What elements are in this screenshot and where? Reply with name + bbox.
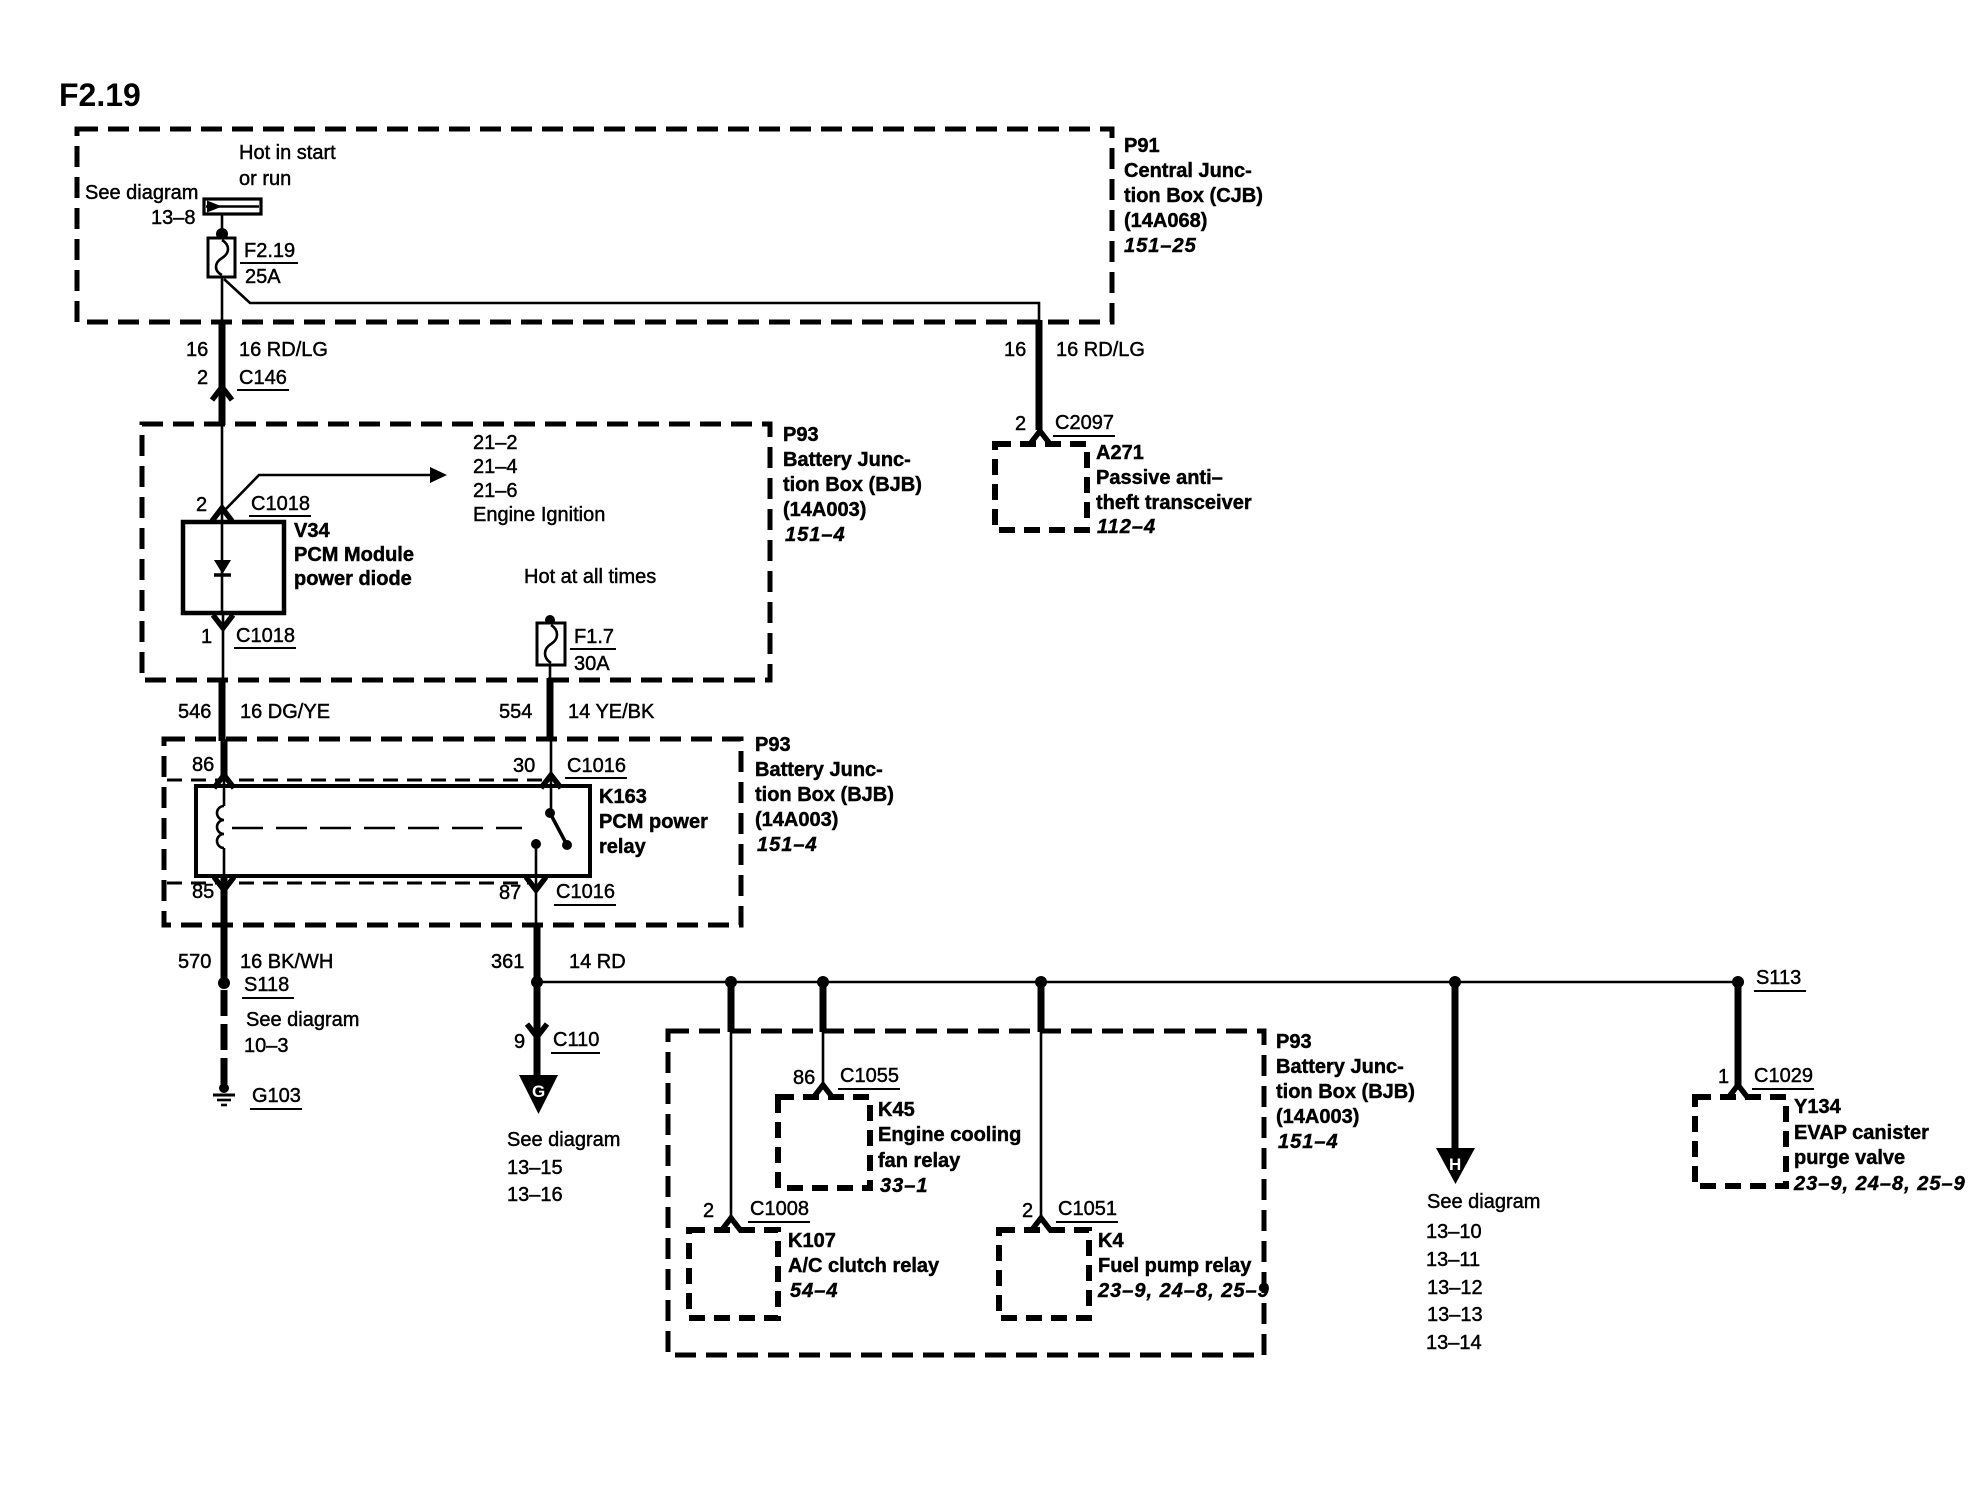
wire 16 RD/LG left (thick) <box>219 320 226 425</box>
connector C146 arrow <box>212 387 232 400</box>
svg-text:theft transceiver: theft transceiver <box>1096 492 1252 514</box>
connector C1029 arrow <box>1728 1085 1748 1098</box>
svg-text:relay: relay <box>599 836 647 858</box>
svg-text:33–1: 33–1 <box>880 1175 929 1197</box>
P93 lower label <box>1276 1031 1415 1153</box>
svg-text:16: 16 <box>1004 339 1026 361</box>
connector C1018 pin 2 label <box>196 493 311 516</box>
diode V34 box <box>183 522 284 613</box>
relay pin 85 arrow (down) <box>214 877 234 890</box>
wire into relay pin 30 (thin) <box>550 739 553 812</box>
fuse F2.19 <box>208 238 235 277</box>
svg-text:(14A003): (14A003) <box>1276 1106 1359 1128</box>
svg-text:C1018: C1018 <box>236 625 295 647</box>
svg-text:C1008: C1008 <box>750 1198 809 1220</box>
svg-text:13–11: 13–11 <box>1426 1249 1480 1271</box>
svg-text:Engine Ignition: Engine Ignition <box>473 504 605 526</box>
note: See diagram 13-10 .. 13-14 <box>1426 1191 1540 1354</box>
P91 label <box>1124 135 1263 257</box>
wire to K45 (thin) <box>822 1032 825 1086</box>
svg-text:13–10: 13–10 <box>1426 1221 1482 1243</box>
ground G103 label <box>250 1085 302 1109</box>
svg-text:See diagram: See diagram <box>1427 1191 1540 1213</box>
off-page arrow G <box>519 1075 558 1114</box>
svg-text:P93: P93 <box>755 734 791 756</box>
svg-text:151–25: 151–25 <box>1124 235 1197 257</box>
svg-text:86: 86 <box>192 754 214 776</box>
connector C1051 pin 2 label <box>1022 1198 1118 1222</box>
wire inside BJB down to V34 (thin) <box>221 424 224 522</box>
relay pin 30 arrow <box>541 775 561 788</box>
svg-text:C1016: C1016 <box>567 755 626 777</box>
svg-text:Hot at all times: Hot at all times <box>524 566 656 588</box>
valve Y134 dashed box <box>1695 1097 1786 1186</box>
connector C2097 arrow <box>1030 431 1050 444</box>
junction box P93 upper (Battery Junction Box) dashed outline <box>142 424 770 680</box>
node dot K45 branch <box>817 976 829 988</box>
svg-text:F2.19: F2.19 <box>59 77 141 113</box>
connector C1008 pin 2 label <box>703 1198 810 1222</box>
svg-text:See diagram: See diagram <box>85 182 198 204</box>
svg-text:PCM Module: PCM Module <box>294 544 414 566</box>
wire K45 branch (thick) <box>820 982 827 1032</box>
svg-text:power diode: power diode <box>294 568 412 590</box>
wire 16 RD/LG right (thick) <box>1036 320 1043 430</box>
splice S113 node <box>1732 976 1744 988</box>
wire label 546 16 DG/YE <box>178 701 330 723</box>
svg-text:EVAP canister: EVAP canister <box>1794 1122 1929 1144</box>
connector C1029 pin 1 label <box>1718 1065 1814 1089</box>
note: See diagram 10-3 <box>244 1009 359 1057</box>
svg-text:C110: C110 <box>553 1029 599 1051</box>
svg-text:2: 2 <box>1022 1200 1033 1222</box>
svg-text:54–4: 54–4 <box>790 1280 839 1302</box>
wire S113 to Y134 (thick) <box>1735 982 1742 1086</box>
svg-text:Y134: Y134 <box>1794 1096 1842 1118</box>
P93 upper label <box>783 424 922 546</box>
wire K107 branch (thick) <box>728 982 735 1032</box>
V34 label <box>294 520 414 590</box>
svg-text:Passive anti–: Passive anti– <box>1096 467 1223 489</box>
svg-text:151–4: 151–4 <box>785 524 846 546</box>
svg-text:30A: 30A <box>574 653 610 675</box>
relay pin 87 label <box>499 881 616 905</box>
svg-text:C1016: C1016 <box>556 881 615 903</box>
svg-text:Engine cooling: Engine cooling <box>878 1124 1021 1146</box>
relay K163 label <box>599 786 708 858</box>
wire relay pin 87 (thin) <box>535 844 538 925</box>
svg-text:tion Box (BJB): tion Box (BJB) <box>783 474 922 496</box>
svg-text:13–15: 13–15 <box>507 1157 563 1179</box>
wire label 16 RD/LG right <box>1004 339 1145 361</box>
node dot at 361 wire <box>531 976 543 988</box>
connector C1055 arrow <box>813 1085 833 1098</box>
A271 label <box>1096 442 1252 538</box>
svg-text:tion Box (BJB): tion Box (BJB) <box>1276 1081 1415 1103</box>
wire to K4 (thin) <box>1040 1032 1043 1219</box>
svg-text:13–14: 13–14 <box>1426 1332 1482 1354</box>
connector C146 pin 2 label <box>197 367 289 390</box>
connector C2097 pin 2 label <box>1015 412 1115 436</box>
splice S113 label <box>1754 967 1806 991</box>
svg-text:112–4: 112–4 <box>1097 516 1156 538</box>
svg-text:Battery Junc-: Battery Junc- <box>1276 1056 1404 1078</box>
svg-text:30: 30 <box>513 755 535 777</box>
connector C1055 pin 86 label <box>793 1065 900 1089</box>
relay K163 internal dashed link <box>232 827 522 830</box>
wire label 570 16 BK/WH <box>178 951 333 973</box>
power feed bus bar symbol <box>204 199 261 214</box>
relay K107 dashed box <box>689 1230 778 1318</box>
connector C1051 arrow <box>1031 1218 1051 1231</box>
svg-text:23–9, 24–8, 25–9: 23–9, 24–8, 25–9 <box>1097 1280 1270 1302</box>
connector line C1016 bottom (dashed) <box>167 882 533 885</box>
wire label 361 14 RD <box>491 951 626 973</box>
svg-text:fan relay: fan relay <box>878 1150 961 1172</box>
node dot H branch <box>1449 976 1461 988</box>
svg-text:P93: P93 <box>783 424 819 446</box>
relay K45 dashed box <box>778 1097 870 1188</box>
note: Engine Ignition feed list <box>473 432 605 526</box>
svg-text:S113: S113 <box>1756 967 1801 989</box>
svg-text:K163: K163 <box>599 786 647 808</box>
K45 label <box>878 1099 1021 1197</box>
svg-text:16 BK/WH: 16 BK/WH <box>240 951 333 973</box>
svg-text:151–4: 151–4 <box>1278 1131 1339 1153</box>
svg-text:13–13: 13–13 <box>1427 1304 1483 1326</box>
wire bus bar to fuse <box>221 213 224 240</box>
svg-text:21–4: 21–4 <box>473 456 518 478</box>
svg-text:tion Box (CJB): tion Box (CJB) <box>1124 185 1263 207</box>
fuse F1.7 30A label <box>570 626 616 675</box>
Y134 label <box>1793 1096 1966 1195</box>
wire V34 to box bottom (thin) <box>222 613 225 680</box>
svg-text:25A: 25A <box>245 266 281 288</box>
wire 361 14 RD (thick) <box>534 925 541 983</box>
wire S118 to ground (thick dashed) <box>221 990 228 1084</box>
svg-text:tion Box (BJB): tion Box (BJB) <box>755 784 894 806</box>
relay pin 86 arrow <box>214 775 234 788</box>
wire gauge label 16 RD/LG <box>186 339 328 361</box>
relay K4 dashed box <box>999 1230 1089 1318</box>
connector C1018 pin 2 arrow <box>212 508 232 521</box>
connector C110 arrow (down) <box>527 1024 547 1037</box>
svg-text:or run: or run <box>239 168 291 190</box>
wire bus 14 RD (thin horizontal) <box>537 981 1740 984</box>
svg-text:546: 546 <box>178 701 211 723</box>
svg-text:(14A003): (14A003) <box>783 499 866 521</box>
svg-text:C146: C146 <box>239 367 287 389</box>
node dot K4 branch <box>1035 976 1047 988</box>
svg-text:2: 2 <box>197 367 208 389</box>
junction box P93 middle (Battery Junction Box) dashed outline <box>164 739 741 925</box>
svg-text:K45: K45 <box>878 1099 915 1121</box>
relay pin 30 label <box>513 755 627 778</box>
svg-text:16 RD/LG: 16 RD/LG <box>1056 339 1145 361</box>
node junction dot above fuse <box>216 228 228 240</box>
svg-text:2: 2 <box>196 494 207 516</box>
diode V34 symbol <box>214 522 231 613</box>
connector C1008 arrow <box>721 1218 741 1231</box>
svg-text:H: H <box>1449 1155 1461 1174</box>
svg-text:13–12: 13–12 <box>1427 1277 1483 1299</box>
wire fuse to box edge (thin) <box>221 277 224 322</box>
svg-text:554: 554 <box>499 701 532 723</box>
svg-text:See diagram: See diagram <box>507 1129 620 1151</box>
svg-text:A/C clutch relay: A/C clutch relay <box>788 1255 940 1277</box>
svg-text:1: 1 <box>201 626 212 648</box>
svg-text:(14A068): (14A068) <box>1124 210 1207 232</box>
wire 554 14 YE/BK (thick) <box>547 678 554 741</box>
svg-text:K4: K4 <box>1098 1230 1124 1252</box>
svg-text:Battery Junc-: Battery Junc- <box>755 759 883 781</box>
svg-text:16: 16 <box>186 339 208 361</box>
wire H branch (thick) <box>1452 982 1459 1150</box>
K4 label <box>1097 1230 1270 1302</box>
off-page arrow H <box>1436 1148 1475 1184</box>
splice S118 node <box>218 977 230 989</box>
wire 546 16 DG/YE (thick) <box>219 678 226 741</box>
svg-text:21–6: 21–6 <box>473 480 518 502</box>
K107 label <box>788 1230 940 1302</box>
wire dot to C110 and G arrow (thick) <box>534 983 541 1078</box>
wire jog from fuse to right branch <box>224 279 1039 322</box>
svg-text:purge valve: purge valve <box>1794 1147 1905 1169</box>
node dot above fuse F1.7 <box>545 615 555 625</box>
junction box P93 lower (Battery Junction Box) dashed outline <box>668 1031 1264 1355</box>
wire to K107 (thin) <box>730 1032 733 1219</box>
arrow pointing to Engine Ignition feeds <box>222 467 447 513</box>
svg-text:C1029: C1029 <box>1754 1065 1813 1087</box>
svg-text:86: 86 <box>793 1067 815 1089</box>
svg-text:S118: S118 <box>244 974 289 996</box>
junction box P91 (Central Junction Box) dashed outline <box>77 129 1112 322</box>
wire F1.7 to box bottom (thin) <box>549 665 552 680</box>
svg-text:9: 9 <box>514 1031 525 1053</box>
svg-text:PCM power: PCM power <box>599 811 708 833</box>
svg-text:(14A003): (14A003) <box>755 809 838 831</box>
wire label 554 14 YE/BK <box>499 701 655 723</box>
svg-text:16 DG/YE: 16 DG/YE <box>240 701 330 723</box>
svg-text:G: G <box>532 1082 545 1101</box>
svg-text:13–8: 13–8 <box>151 207 196 229</box>
svg-text:V34: V34 <box>294 520 330 542</box>
svg-text:P91: P91 <box>1124 135 1160 157</box>
node dot K107 branch <box>725 976 737 988</box>
svg-text:P93: P93 <box>1276 1031 1312 1053</box>
svg-text:Fuel pump relay: Fuel pump relay <box>1098 1255 1252 1277</box>
fuse F1.7 <box>537 623 565 665</box>
connector C1018 pin 1 label <box>201 625 296 648</box>
note: See diagram 13-8 <box>85 182 198 229</box>
svg-text:Hot in start: Hot in start <box>239 142 336 164</box>
svg-text:C1018: C1018 <box>251 493 310 515</box>
note: See diagram 13-15 13-16 <box>507 1129 620 1206</box>
P93 middle label <box>755 734 894 856</box>
svg-text:A271: A271 <box>1096 442 1144 464</box>
svg-text:10–3: 10–3 <box>244 1035 289 1057</box>
svg-text:14 RD: 14 RD <box>569 951 626 973</box>
ground G103 symbol <box>213 1083 235 1105</box>
relay K163 switch <box>531 808 572 850</box>
svg-text:C2097: C2097 <box>1055 412 1114 434</box>
svg-text:K107: K107 <box>788 1230 836 1252</box>
note: Hot in start or run <box>239 142 336 190</box>
relay K163 coil <box>217 780 224 876</box>
svg-text:14 YE/BK: 14 YE/BK <box>568 701 655 723</box>
svg-text:C1055: C1055 <box>840 1065 899 1087</box>
svg-text:Battery Junc-: Battery Junc- <box>783 449 911 471</box>
svg-text:85: 85 <box>192 881 214 903</box>
svg-text:21–2: 21–2 <box>473 432 518 454</box>
svg-text:Central Junc-: Central Junc- <box>1124 160 1252 182</box>
relay pin 87 arrow (down) <box>526 877 546 890</box>
relay K163 box <box>196 786 590 876</box>
svg-text:F1.7: F1.7 <box>574 626 614 648</box>
svg-text:361: 361 <box>491 951 524 973</box>
svg-text:87: 87 <box>499 882 521 904</box>
svg-text:See diagram: See diagram <box>246 1009 359 1031</box>
wire K4 branch (thick) <box>1038 982 1045 1032</box>
svg-text:1: 1 <box>1718 1066 1729 1088</box>
connector C1018 pin 1 arrow (down) <box>213 615 233 628</box>
wire into relay pin 86 (thick) <box>221 739 228 780</box>
svg-text:23–9, 24–8, 25–9: 23–9, 24–8, 25–9 <box>1793 1173 1966 1195</box>
connector line C1016 top (dashed) <box>167 779 543 782</box>
svg-text:2: 2 <box>1015 413 1026 435</box>
svg-text:16 RD/LG: 16 RD/LG <box>239 339 328 361</box>
svg-text:151–4: 151–4 <box>757 834 818 856</box>
wire pin 85 to box bottom (thick) <box>221 876 228 983</box>
svg-text:C1051: C1051 <box>1058 1198 1117 1220</box>
splice S118 label <box>242 974 294 998</box>
svg-text:G103: G103 <box>252 1085 301 1107</box>
transceiver A271 dashed box <box>995 444 1087 530</box>
svg-text:570: 570 <box>178 951 211 973</box>
svg-text:2: 2 <box>703 1200 714 1222</box>
svg-text:13–16: 13–16 <box>507 1184 563 1206</box>
fuse F2.19 25A label <box>240 240 298 288</box>
svg-text:F2.19: F2.19 <box>244 240 295 262</box>
connector C110 pin 9 label <box>514 1029 600 1053</box>
